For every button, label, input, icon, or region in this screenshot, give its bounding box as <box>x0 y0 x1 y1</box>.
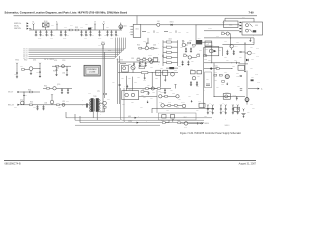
dark bar D3 <box>166 67 178 69</box>
svg-text:C230: C230 <box>180 47 183 49</box>
svg-text:R140: R140 <box>102 41 105 43</box>
svg-text:100pF: 100pF <box>98 38 102 40</box>
svg-text:R241: R241 <box>140 107 143 109</box>
svg-text:R100: R100 <box>51 25 54 27</box>
svg-text:C157: C157 <box>36 108 39 110</box>
svg-text:CR410: CR410 <box>181 102 185 104</box>
tick R310 <box>234 60 237 64</box>
svg-text:R234: R234 <box>191 60 194 62</box>
wire into T151 <box>72 104 90 106</box>
labels dense1 <box>180 44 209 53</box>
svg-text:SW_5V: SW_5V <box>23 49 28 51</box>
header rule <box>14 15 258 17</box>
page background <box>0 0 270 175</box>
labels top right <box>216 36 239 44</box>
net label 3V <box>8 104 20 107</box>
bus net labels <box>23 49 28 60</box>
svg-text:.01uF: .01uF <box>50 38 53 40</box>
svg-text:C321: C321 <box>221 84 224 86</box>
labels fill right <box>196 79 219 90</box>
svg-text:C106: C106 <box>64 27 67 29</box>
bottom labels <box>161 120 187 129</box>
svg-text:R244: R244 <box>196 110 199 112</box>
svg-text:VSTBY: VSTBY <box>128 121 132 123</box>
power symbol A+ <box>56 20 58 30</box>
RC cluster 1 <box>207 105 214 114</box>
svg-text:U151: U151 <box>54 60 57 62</box>
svg-text:C341: C341 <box>222 111 225 113</box>
svg-text:C153: C153 <box>62 60 65 62</box>
bus wires 6 nets <box>29 38 126 59</box>
svg-text:6881096C74-B: 6881096C74-B <box>5 162 21 165</box>
svg-text:U303: U303 <box>225 92 228 94</box>
power arrow dn R <box>244 70 246 72</box>
wire drop x230 <box>229 34 232 47</box>
junction dot y72.6 <box>151 71 154 74</box>
svg-text:CR203: CR203 <box>148 55 152 57</box>
row y31 ticks <box>142 30 189 33</box>
svg-text:U101: U101 <box>135 29 138 31</box>
wire ignition stub <box>29 29 31 30</box>
labels subA <box>137 43 156 46</box>
svg-text:R310: R310 <box>234 60 237 62</box>
dark bits x251 <box>251 77 255 82</box>
svg-text:C105: C105 <box>59 35 62 37</box>
cluster D1b <box>185 48 192 53</box>
RC cluster 2 <box>220 105 227 114</box>
extra parts y68 right <box>216 68 232 70</box>
wire U101 output <box>141 24 157 26</box>
power arrow up B <box>175 84 177 89</box>
svg-text:C322: C322 <box>236 76 239 78</box>
power arrow dn Q310 <box>226 83 228 86</box>
svg-text:R: R <box>158 73 159 75</box>
svg-text:L201: L201 <box>154 58 157 60</box>
capacitor C151 <box>16 69 18 78</box>
diamond CR310 <box>210 67 219 70</box>
stub x160 <box>159 75 161 87</box>
cluster y96 parts <box>159 95 180 98</box>
svg-text:3V: 3V <box>103 21 105 23</box>
svg-text:C102: C102 <box>41 35 44 37</box>
capacitor C109 <box>89 30 91 36</box>
svg-text:R402: R402 <box>177 120 180 122</box>
svg-text:UNSW_B+: UNSW_B+ <box>14 23 21 25</box>
capacitor C112 <box>110 30 113 37</box>
svg-text:R324: R324 <box>236 72 239 74</box>
svg-text:C113: C113 <box>104 35 107 37</box>
labels top rail specks <box>41 27 119 38</box>
svg-text:R212: R212 <box>137 56 140 58</box>
svg-text:R141: R141 <box>108 49 111 51</box>
svg-text:R315: R315 <box>232 66 235 68</box>
svg-text:C259: C259 <box>170 90 173 92</box>
svg-text:R210: R210 <box>137 44 140 46</box>
labels dense2 <box>160 46 194 70</box>
vertical x157 <box>156 90 158 113</box>
svg-text:9.3V: 9.3V <box>120 59 123 61</box>
labels center bottom <box>140 89 207 117</box>
capacitor C302 <box>233 50 235 55</box>
svg-text:R151: R151 <box>14 73 17 75</box>
svg-text:7-99: 7-99 <box>248 12 254 15</box>
resistor R154 <box>30 102 34 106</box>
svg-text:C107: C107 <box>80 27 83 29</box>
svg-text:R253: R253 <box>155 78 158 80</box>
power symbol V301 <box>244 43 246 71</box>
svg-text:R152: R152 <box>24 60 27 62</box>
IC U203 <box>122 89 139 100</box>
svg-text:R102: R102 <box>75 27 78 29</box>
svg-text:Q302: Q302 <box>252 53 255 55</box>
resistor R160 <box>30 91 33 93</box>
svg-text:C166: C166 <box>33 107 36 109</box>
capacitor C108 <box>85 30 88 37</box>
svg-text:SW_5V: SW_5V <box>23 52 28 54</box>
wire x103 lower <box>102 100 104 112</box>
svg-text:C114: C114 <box>116 35 119 37</box>
labels row y59 <box>120 58 157 62</box>
labels left lower <box>14 107 39 110</box>
net label IGNITION <box>14 28 29 31</box>
bus riser left2 <box>75 114 121 120</box>
bottom arrow out <box>201 122 209 125</box>
capacitor C161 <box>67 88 69 93</box>
sub circuit A <box>139 43 158 50</box>
svg-text:R265: R265 <box>128 64 131 66</box>
svg-text:Q301: Q301 <box>234 46 237 48</box>
svg-text:C107: C107 <box>81 35 84 37</box>
svg-text:R218: R218 <box>189 40 192 42</box>
wire row y63.8 <box>238 63 248 65</box>
bottom cluster parts <box>162 119 200 125</box>
svg-text:C152: C152 <box>36 72 39 74</box>
svg-text:R254: R254 <box>147 84 150 86</box>
labels left mid2 <box>53 70 65 74</box>
svg-text:R107: R107 <box>222 22 225 24</box>
svg-text:R260: R260 <box>178 99 181 101</box>
wire row y96.3 <box>139 95 157 97</box>
resistor R155 <box>57 104 60 106</box>
wire L101 right <box>160 24 196 26</box>
svg-text:August 31, 2007: August 31, 2007 <box>239 163 257 166</box>
svg-text:R340: R340 <box>256 47 259 49</box>
svg-text:R262: R262 <box>196 94 199 96</box>
svg-text:L101: L101 <box>157 21 160 23</box>
svg-text:U: U <box>241 68 242 70</box>
svg-text:C110: C110 <box>98 35 101 37</box>
labels right of RC <box>250 104 255 110</box>
svg-text:C242: C242 <box>166 110 169 112</box>
svg-text:C257: C257 <box>122 103 125 105</box>
svg-text:R155: R155 <box>58 107 61 109</box>
capacitor C102 <box>39 30 41 36</box>
opto U303 <box>223 92 230 100</box>
resistor network ladder <box>163 38 178 66</box>
stub x126 <box>125 76 127 91</box>
svg-text:Q206: Q206 <box>199 50 202 52</box>
wire top rail <box>29 29 122 31</box>
inductor L101 <box>157 21 160 27</box>
svg-text:R346: R346 <box>252 108 255 110</box>
svg-text:R243: R243 <box>176 107 179 109</box>
svg-text:K101: K101 <box>255 25 258 27</box>
pullup mid top <box>98 41 105 49</box>
capacitor C157 <box>36 105 38 110</box>
footer part number <box>5 162 21 165</box>
power symbol V154 <box>51 94 53 100</box>
wire drop x24 <box>23 92 25 105</box>
svg-text:SW_B+: SW_B+ <box>14 26 19 28</box>
svg-text:C163: C163 <box>88 93 91 95</box>
svg-text:C103: C103 <box>45 35 48 37</box>
IC U202 <box>122 63 132 72</box>
svg-text:SW_B+_SENSE: SW_B+_SENSE <box>44 59 54 61</box>
svg-text:Q155: Q155 <box>57 84 60 86</box>
svg-text:R221: R221 <box>197 53 200 55</box>
net label UNSW_B+ <box>14 22 29 25</box>
RC cluster 3 <box>232 105 240 114</box>
sub circuit B <box>137 58 158 62</box>
resistor R104 <box>221 31 224 35</box>
svg-text:GND: GND <box>128 116 131 118</box>
box U401 <box>158 113 196 120</box>
svg-text:J101: J101 <box>242 17 245 19</box>
svg-text:C140: C140 <box>98 45 101 47</box>
transistor Q301 <box>230 44 238 49</box>
svg-text:R263: R263 <box>150 66 153 68</box>
svg-text:C115: C115 <box>236 42 239 44</box>
svg-text:R106: R106 <box>216 36 219 38</box>
svg-text:U204: U204 <box>168 38 171 40</box>
wire drop from rule <box>136 16 138 25</box>
svg-text:C303: C303 <box>224 57 227 59</box>
stub x146 <box>144 74 146 80</box>
capacitor C201 <box>133 62 135 66</box>
cluster x190 y70 <box>190 68 202 85</box>
cluster R321 <box>214 72 222 76</box>
junction drop T151 <box>100 108 105 112</box>
svg-text:Q101: Q101 <box>123 26 126 28</box>
net label SW_B+ <box>14 25 29 28</box>
vertical x214 extend <box>213 63 215 78</box>
svg-text:C343: C343 <box>257 82 260 84</box>
wire row y92 <box>20 91 41 93</box>
svg-text:C209: C209 <box>112 82 115 84</box>
resistor R156 <box>103 105 106 108</box>
svg-text:R153: R153 <box>56 68 59 70</box>
transistor Q154 <box>99 101 106 105</box>
regulator VR201 <box>139 65 148 74</box>
labels transformer zone <box>82 99 110 115</box>
power arrow dn D <box>162 54 164 57</box>
resistor R153 <box>56 65 59 67</box>
wire row y104.8 <box>20 104 73 106</box>
svg-text:C104: C104 <box>52 35 55 37</box>
svg-text:R316: R316 <box>239 57 242 59</box>
svg-text:CR331: CR331 <box>232 95 236 97</box>
bus riser left3 <box>80 116 124 123</box>
svg-text:T151: T151 <box>93 96 96 98</box>
labels y94 <box>146 92 175 95</box>
svg-text:T151: T151 <box>97 89 100 91</box>
wire row y30.8 <box>204 30 239 32</box>
resistor R101 <box>69 29 73 31</box>
svg-text:R220: R220 <box>183 53 186 55</box>
svg-text:R231: R231 <box>192 47 195 49</box>
svg-text:C310: C310 <box>250 68 253 70</box>
wire row y62.8 <box>204 61 240 64</box>
box U301 <box>205 45 219 56</box>
label top mid <box>143 40 146 42</box>
svg-text:R323: R323 <box>214 79 217 81</box>
wire vertical x247 <box>246 71 248 105</box>
svg-text:U203: U203 <box>129 89 132 91</box>
stub x167 <box>164 75 166 81</box>
svg-text:.01uF: .01uF <box>84 38 87 40</box>
svg-text:Schematics, Component Location: Schematics, Component Location Diagrams,… <box>5 12 128 15</box>
svg-text:Q401: Q401 <box>184 127 187 129</box>
transistor Q101 <box>119 23 127 30</box>
labels right col2 <box>208 17 255 70</box>
svg-text:IGNITION: IGNITION <box>14 28 21 30</box>
svg-text:R401: R401 <box>161 120 164 122</box>
power symbol B+ <box>33 21 35 30</box>
svg-text:Q202: Q202 <box>174 70 177 72</box>
svg-text:Q152: Q152 <box>20 99 23 101</box>
svg-text:REG_3V: REG_3V <box>8 105 14 107</box>
power arrow top x183 <box>182 40 184 43</box>
svg-text:Figure 7-132. HUF4075 Controll: Figure 7-132. HUF4075 Controller Power S… <box>180 132 242 135</box>
capacitor C160 <box>61 88 63 93</box>
wire row y72.6 <box>118 72 178 74</box>
labels subB <box>137 55 152 58</box>
transistor Q102 <box>224 32 230 35</box>
svg-text:R157: R157 <box>53 70 56 72</box>
long vertical x117.6 <box>117 59 119 105</box>
svg-text:C278: C278 <box>196 85 199 87</box>
figure caption <box>180 132 242 135</box>
wire row y44.6 right <box>222 38 254 45</box>
svg-text:R342: R342 <box>255 73 258 75</box>
svg-text:R154: R154 <box>30 102 33 104</box>
svg-text:R321: R321 <box>214 72 217 74</box>
svg-text:C109: C109 <box>90 27 93 29</box>
wire net arrow right <box>248 87 263 90</box>
labels far right column <box>253 35 260 84</box>
stub x152 <box>151 73 153 89</box>
sub circuit B caps <box>139 62 147 67</box>
capacitor C303 ticks <box>239 51 245 54</box>
svg-text:C340: C340 <box>209 111 212 113</box>
svg-text:K101: K101 <box>224 41 227 43</box>
note label <box>224 125 229 127</box>
power symbol V152 <box>39 63 41 69</box>
svg-text:SW_5V: SW_5V <box>23 54 28 56</box>
wire riser x152 <box>151 108 153 113</box>
transistor Q151 <box>29 67 40 74</box>
diode CR101 <box>170 22 174 26</box>
svg-text:C101: C101 <box>34 35 37 37</box>
cluster y88 parts <box>146 87 172 90</box>
svg-text:R313: R313 <box>208 60 211 62</box>
net arrow bus A <box>128 116 137 119</box>
resistor R201 <box>140 61 143 63</box>
svg-text:R232: R232 <box>160 68 163 70</box>
svg-text:C208: C208 <box>143 80 146 82</box>
svg-text:C342: C342 <box>234 111 237 113</box>
transistor Q152 <box>20 99 24 104</box>
capacitor C155 <box>66 66 68 76</box>
tick marks x241 <box>237 86 242 90</box>
transistor Q310 dark <box>225 75 229 79</box>
resistor R151 <box>22 69 30 71</box>
transistor Q302 <box>245 51 256 55</box>
transformer T151 <box>86 96 100 120</box>
labels left block <box>14 65 69 109</box>
svg-text:L152: L152 <box>62 101 65 103</box>
svg-text:U401: U401 <box>183 117 186 119</box>
wire row y108.3 <box>152 107 214 109</box>
resistor R203 <box>163 70 168 75</box>
capacitor C113 <box>115 30 117 36</box>
riser x120.5 <box>121 88 205 120</box>
riser x124 <box>124 88 204 123</box>
wire corner x119.5 <box>120 56 126 64</box>
labels row y90 <box>28 84 60 92</box>
svg-text:R311: R311 <box>250 46 253 48</box>
extra tick top right <box>249 38 251 42</box>
labels right col <box>208 49 235 67</box>
svg-text:C120: C120 <box>85 24 88 26</box>
svg-text:SW_5V: SW_5V <box>23 51 28 53</box>
svg-text:C271: C271 <box>156 31 159 33</box>
stub x133 <box>132 77 134 91</box>
wire row y66.2 <box>52 65 71 67</box>
svg-text:SENSE: SENSE <box>204 123 209 125</box>
relay pin column <box>239 22 241 33</box>
capacitor C154 <box>55 66 57 76</box>
wire long vertical x103 <box>102 44 104 100</box>
labels right mid <box>250 46 254 61</box>
IC U101 <box>133 24 141 37</box>
bottom tick <box>198 122 201 124</box>
capacitor C158 <box>42 102 47 110</box>
power symbol V151 <box>16 63 18 70</box>
svg-text:C240: C240 <box>150 98 153 100</box>
svg-text:C201: C201 <box>131 58 134 60</box>
label opto right <box>232 95 236 97</box>
labels D <box>204 49 208 60</box>
wire D right <box>202 42 212 63</box>
filter FL100 <box>43 21 50 30</box>
svg-text:R410: R410 <box>168 102 171 104</box>
svg-text:C255: C255 <box>141 94 144 96</box>
svg-text:FL100: FL100 <box>44 21 48 23</box>
svg-text:R161: R161 <box>44 85 47 87</box>
svg-text:5V: 5V <box>94 21 96 23</box>
svg-text:C245: C245 <box>204 116 207 118</box>
svg-text:C112: C112 <box>110 35 113 37</box>
svg-text:R258: R258 <box>158 91 161 93</box>
bottom bus line 3 <box>75 124 160 126</box>
capacitor C105 <box>59 30 62 37</box>
svg-text:100pF: 100pF <box>63 38 67 40</box>
bottom bus line 1 <box>66 117 212 119</box>
capacitor C301 <box>226 50 228 55</box>
svg-text:R277: R277 <box>206 79 209 81</box>
svg-text:U206: U206 <box>198 38 201 40</box>
